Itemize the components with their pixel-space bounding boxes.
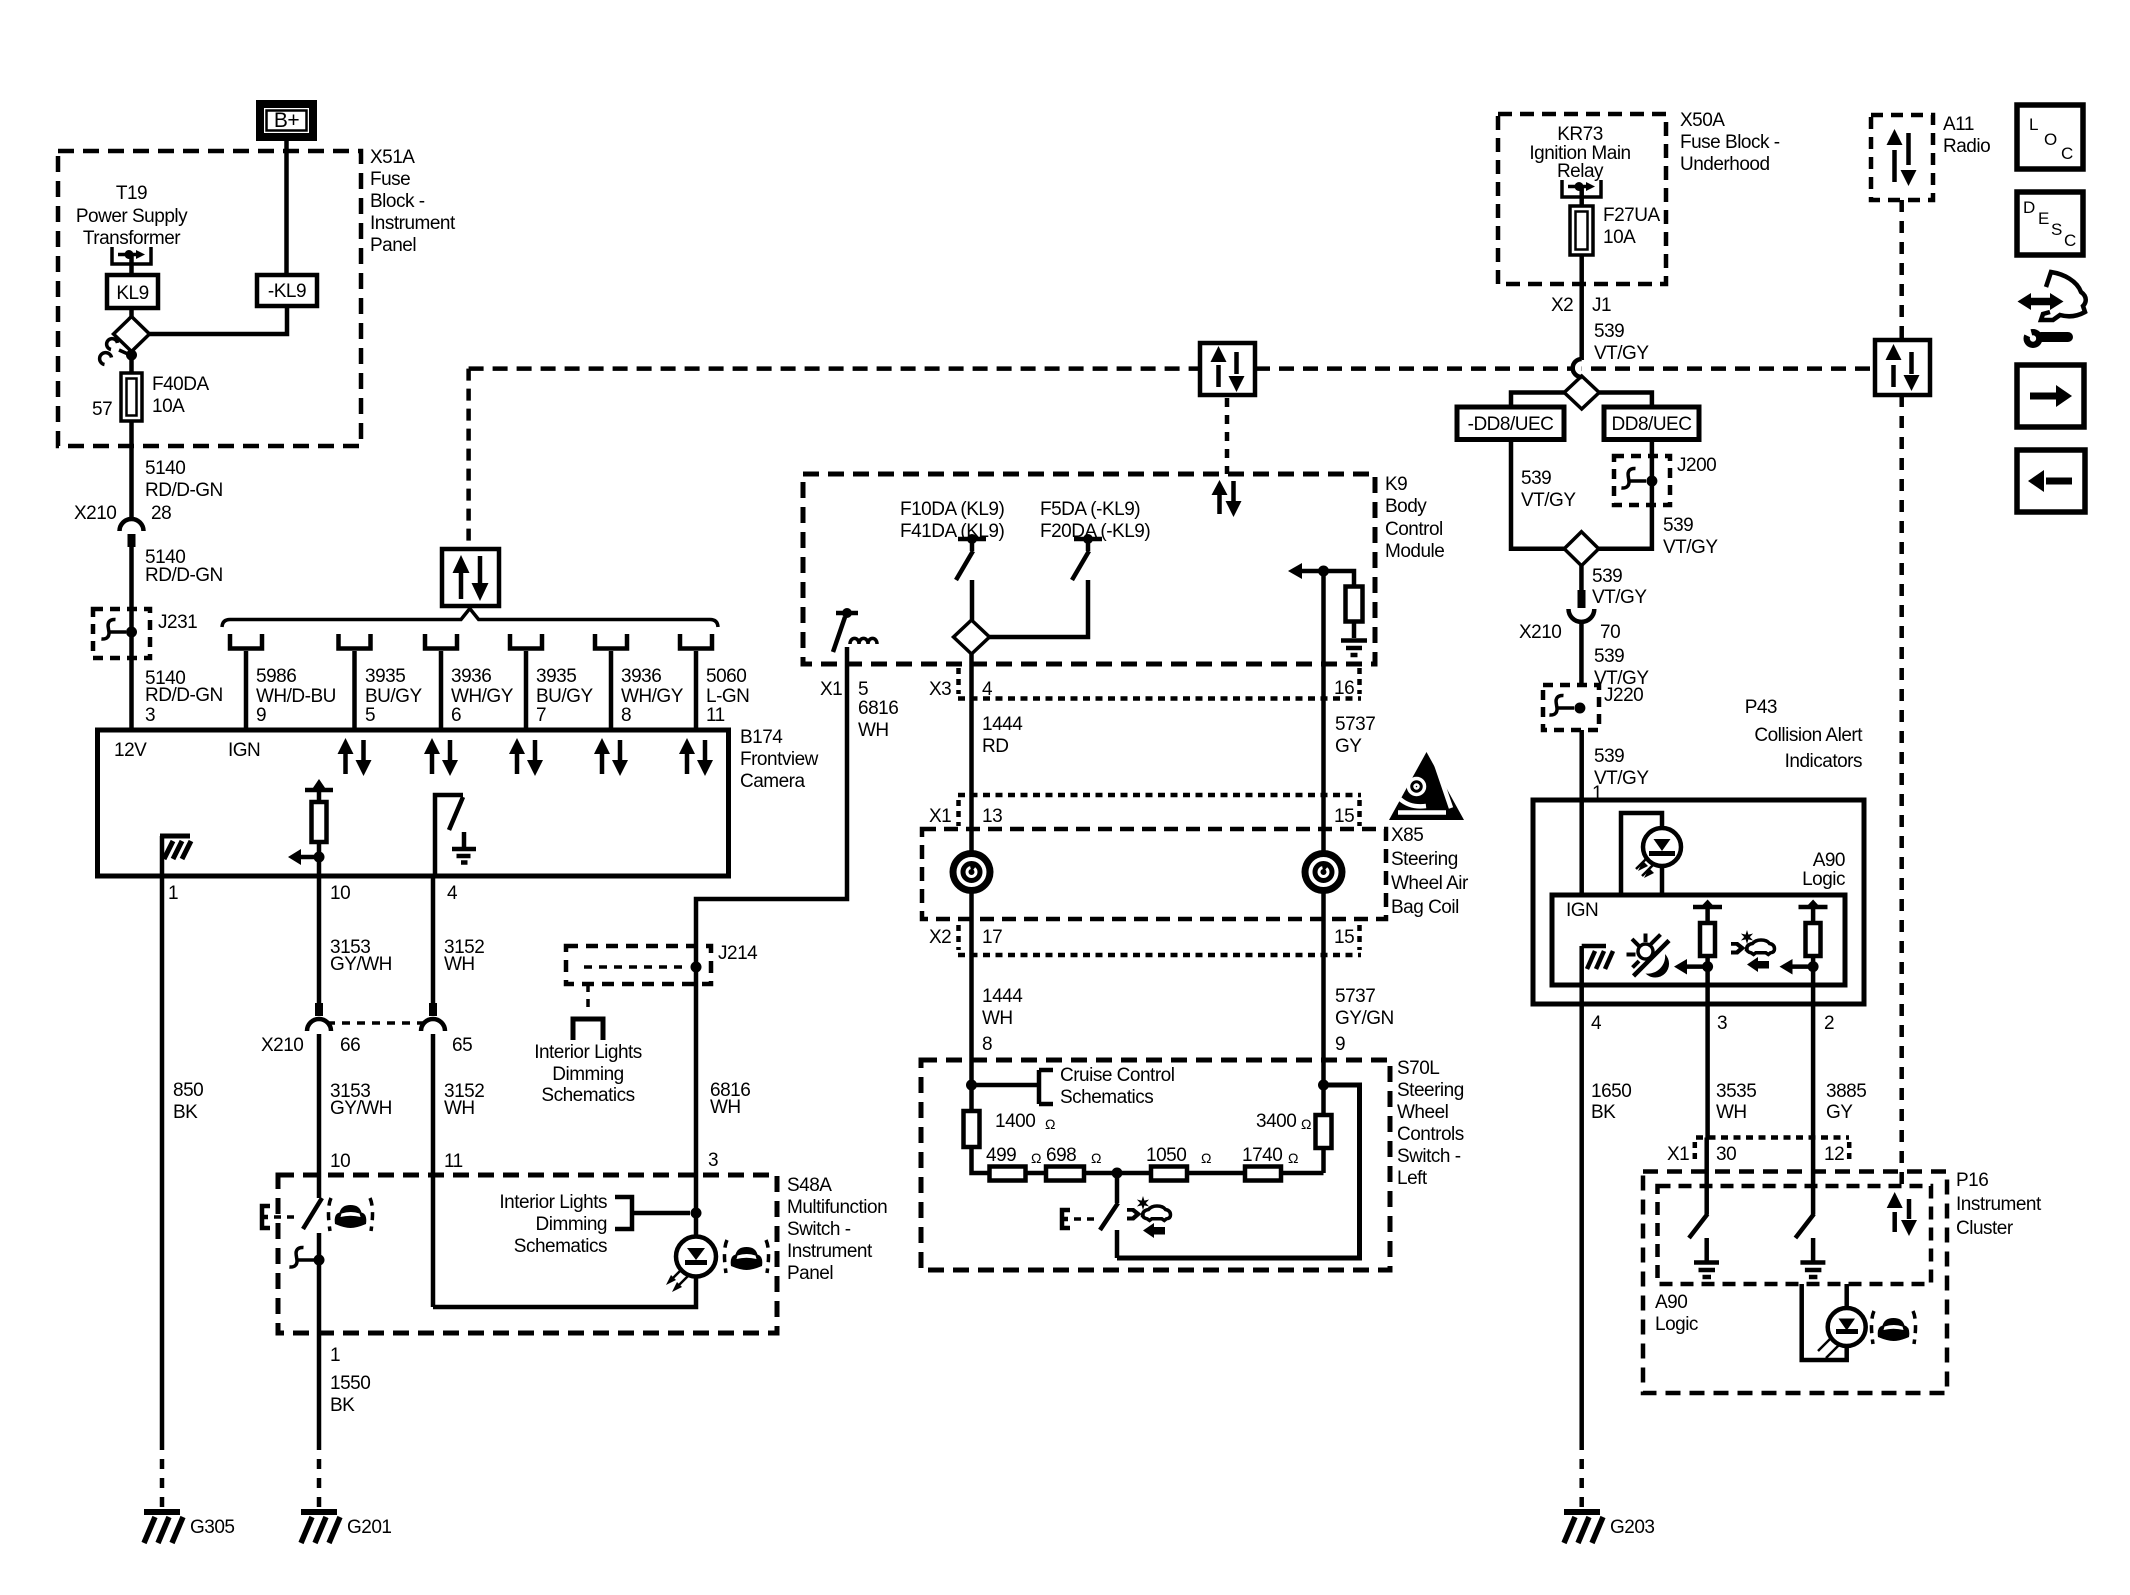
svg-text:5: 5: [858, 679, 868, 700]
svg-text:C: C: [2061, 144, 2073, 163]
svg-text:539: 539: [1594, 746, 1624, 767]
svg-text:-DD8/UEC: -DD8/UEC: [1468, 414, 1554, 435]
svg-text:9: 9: [256, 705, 266, 726]
svg-text:L: L: [2029, 115, 2038, 134]
svg-text:539: 539: [1594, 321, 1624, 342]
svg-text:Steering: Steering: [1391, 849, 1458, 870]
svg-text:GY: GY: [1826, 1102, 1853, 1123]
svg-text:A90: A90: [1813, 850, 1845, 871]
svg-text:F40DA: F40DA: [152, 374, 209, 395]
svg-text:Control: Control: [1385, 519, 1443, 540]
svg-text:WH: WH: [710, 1097, 741, 1118]
svg-text:O: O: [2044, 130, 2057, 149]
svg-text:70: 70: [1600, 622, 1620, 643]
svg-text:Controls: Controls: [1397, 1124, 1464, 1145]
svg-text:6816: 6816: [858, 698, 898, 719]
svg-text:Interior Lights: Interior Lights: [499, 1192, 607, 1213]
svg-text:L-GN: L-GN: [706, 686, 749, 707]
svg-text:RD/D-GN: RD/D-GN: [145, 480, 223, 501]
svg-text:Cruise Control: Cruise Control: [1060, 1065, 1174, 1086]
svg-text:12: 12: [1824, 1144, 1844, 1165]
svg-text:Wheel: Wheel: [1397, 1102, 1448, 1123]
svg-text:1: 1: [1592, 783, 1602, 804]
svg-text:1550: 1550: [330, 1373, 370, 1394]
svg-text:J200: J200: [1677, 455, 1716, 476]
svg-text:BK: BK: [1591, 1102, 1616, 1123]
svg-text:X210: X210: [261, 1035, 303, 1056]
svg-text:8: 8: [982, 1034, 992, 1055]
svg-text:Ω: Ω: [1045, 1116, 1055, 1132]
svg-text:WH/GY: WH/GY: [451, 686, 514, 707]
svg-text:17: 17: [982, 927, 1002, 948]
svg-text:IGN: IGN: [228, 740, 260, 761]
svg-text:Camera: Camera: [740, 771, 806, 792]
svg-text:Logic: Logic: [1655, 1314, 1698, 1335]
svg-text:Panel: Panel: [370, 235, 416, 256]
svg-text:1444: 1444: [982, 986, 1023, 1007]
svg-text:3936: 3936: [621, 666, 661, 687]
svg-text:1400: 1400: [995, 1111, 1035, 1132]
svg-text:1740: 1740: [1242, 1145, 1282, 1166]
svg-text:3935: 3935: [365, 666, 405, 687]
svg-text:J231: J231: [158, 612, 197, 633]
svg-text:Panel: Panel: [787, 1263, 833, 1284]
svg-text:X2: X2: [929, 927, 951, 948]
svg-text:5140: 5140: [145, 458, 185, 479]
svg-text:Underhood: Underhood: [1680, 154, 1770, 175]
svg-text:5737: 5737: [1335, 714, 1375, 735]
svg-text:BU/GY: BU/GY: [536, 686, 593, 707]
svg-text:D: D: [2023, 198, 2035, 217]
svg-text:VT/GY: VT/GY: [1594, 343, 1649, 364]
svg-text:F27UA: F27UA: [1603, 205, 1660, 226]
svg-text:7: 7: [536, 705, 546, 726]
svg-text:F5DA (-KL9): F5DA (-KL9): [1040, 499, 1140, 520]
svg-text:3400: 3400: [1256, 1111, 1296, 1132]
svg-text:VT/GY: VT/GY: [1592, 587, 1647, 608]
svg-text:4: 4: [1591, 1013, 1602, 1034]
svg-text:BK: BK: [330, 1395, 355, 1416]
svg-text:X1: X1: [820, 679, 842, 700]
svg-text:Ω: Ω: [1288, 1150, 1298, 1166]
svg-text:Ω: Ω: [1091, 1150, 1101, 1166]
svg-text:Left: Left: [1397, 1168, 1428, 1189]
svg-text:Body: Body: [1385, 496, 1427, 517]
svg-text:Steering: Steering: [1397, 1080, 1464, 1101]
svg-text:4: 4: [982, 679, 993, 700]
svg-text:2: 2: [1824, 1013, 1834, 1034]
svg-text:Dimming: Dimming: [552, 1064, 623, 1085]
svg-text:11: 11: [706, 705, 725, 726]
svg-text:15: 15: [1334, 927, 1354, 948]
svg-text:Multifunction: Multifunction: [787, 1197, 887, 1218]
svg-text:Module: Module: [1385, 541, 1444, 562]
svg-text:X1: X1: [929, 806, 951, 827]
svg-text:B174: B174: [740, 727, 783, 748]
svg-text:12V: 12V: [114, 740, 147, 761]
svg-text:J220: J220: [1604, 685, 1643, 706]
svg-text:Instrument: Instrument: [1956, 1194, 2042, 1215]
svg-text:S70L: S70L: [1397, 1058, 1439, 1079]
svg-text:Bag Coil: Bag Coil: [1391, 897, 1459, 918]
svg-text:S: S: [2051, 220, 2062, 239]
svg-text:Schematics: Schematics: [541, 1085, 634, 1106]
svg-text:Transformer: Transformer: [83, 228, 181, 249]
svg-text:Instrument: Instrument: [787, 1241, 873, 1262]
svg-text:28: 28: [151, 503, 171, 524]
svg-text:P43: P43: [1745, 697, 1777, 718]
svg-text:3: 3: [1717, 1013, 1727, 1034]
svg-text:15: 15: [1334, 806, 1354, 827]
svg-text:1050: 1050: [1146, 1145, 1186, 1166]
svg-text:Ω: Ω: [1031, 1150, 1041, 1166]
svg-text:KL9: KL9: [116, 283, 148, 304]
svg-text:Collision Alert: Collision Alert: [1754, 725, 1863, 746]
svg-text:3885: 3885: [1826, 1081, 1866, 1102]
svg-text:Schematics: Schematics: [514, 1236, 607, 1257]
svg-text:Logic: Logic: [1802, 869, 1845, 890]
svg-text:Wheel Air: Wheel Air: [1391, 873, 1469, 894]
svg-text:E: E: [2038, 209, 2049, 228]
svg-text:DD8/UEC: DD8/UEC: [1612, 414, 1692, 435]
svg-text:539: 539: [1663, 515, 1693, 536]
svg-text:57: 57: [92, 399, 112, 420]
svg-text:WH: WH: [444, 1098, 475, 1119]
svg-text:T19: T19: [116, 183, 147, 204]
svg-text:5737: 5737: [1335, 986, 1375, 1007]
svg-text:VT/GY: VT/GY: [1521, 490, 1576, 511]
svg-text:G201: G201: [347, 1517, 391, 1538]
svg-text:RD/D-GN: RD/D-GN: [145, 685, 223, 706]
svg-text:BU/GY: BU/GY: [365, 686, 422, 707]
svg-text:Block -: Block -: [370, 191, 425, 212]
svg-text:GY/GN: GY/GN: [1335, 1008, 1394, 1029]
svg-text:Schematics: Schematics: [1060, 1087, 1153, 1108]
svg-text:5: 5: [365, 705, 375, 726]
svg-text:KR73: KR73: [1557, 124, 1603, 145]
svg-text:Switch -: Switch -: [787, 1219, 851, 1240]
svg-text:499: 499: [986, 1145, 1016, 1166]
svg-text:539: 539: [1594, 646, 1624, 667]
svg-text:X50A: X50A: [1680, 110, 1725, 131]
svg-text:X210: X210: [74, 503, 116, 524]
svg-text:10: 10: [330, 1151, 350, 1172]
svg-text:6: 6: [451, 705, 461, 726]
svg-text:3: 3: [708, 1150, 718, 1171]
svg-text:3535: 3535: [1716, 1081, 1756, 1102]
svg-text:WH: WH: [1716, 1102, 1747, 1123]
svg-text:IGN: IGN: [1566, 900, 1598, 921]
svg-text:J214: J214: [718, 943, 758, 964]
svg-text:B+: B+: [274, 109, 300, 132]
svg-text:X210: X210: [1519, 622, 1561, 643]
svg-text:4: 4: [447, 883, 458, 904]
svg-text:Interior Lights: Interior Lights: [534, 1042, 642, 1063]
svg-text:30: 30: [1716, 1144, 1736, 1165]
svg-text:GY: GY: [1335, 736, 1362, 757]
svg-text:VT/GY: VT/GY: [1663, 537, 1718, 558]
svg-text:F41DA (KL9): F41DA (KL9): [900, 521, 1004, 542]
svg-text:Indicators: Indicators: [1785, 751, 1862, 772]
svg-text:GY/WH: GY/WH: [330, 1098, 392, 1119]
svg-text:G203: G203: [1610, 1517, 1654, 1538]
svg-text:66: 66: [340, 1035, 360, 1056]
svg-text:F10DA (KL9): F10DA (KL9): [900, 499, 1004, 520]
svg-text:K9: K9: [1385, 474, 1407, 495]
svg-text:RD/D-GN: RD/D-GN: [145, 565, 223, 586]
svg-text:1: 1: [168, 883, 178, 904]
svg-text:A11: A11: [1943, 114, 1974, 135]
svg-text:10: 10: [330, 883, 350, 904]
svg-text:1444: 1444: [982, 714, 1023, 735]
svg-text:Power Supply: Power Supply: [76, 206, 188, 227]
svg-text:11: 11: [444, 1151, 463, 1172]
svg-text:X2: X2: [1551, 295, 1573, 316]
svg-text:3935: 3935: [536, 666, 576, 687]
svg-text:GY/WH: GY/WH: [330, 954, 392, 975]
svg-text:8: 8: [621, 705, 631, 726]
svg-text:F20DA (-KL9): F20DA (-KL9): [1040, 521, 1150, 542]
svg-text:1: 1: [330, 1345, 340, 1366]
svg-text:10A: 10A: [152, 396, 185, 417]
svg-text:BK: BK: [173, 1102, 198, 1123]
svg-text:X1: X1: [1667, 1144, 1689, 1165]
svg-text:A90: A90: [1655, 1292, 1687, 1313]
svg-text:Ω: Ω: [1201, 1150, 1211, 1166]
svg-text:J1: J1: [1592, 295, 1611, 316]
svg-text:Cluster: Cluster: [1956, 1218, 2014, 1239]
svg-text:Instrument: Instrument: [370, 213, 456, 234]
svg-text:S48A: S48A: [787, 1175, 832, 1196]
svg-text:65: 65: [452, 1035, 472, 1056]
svg-text:X51A: X51A: [370, 147, 415, 168]
svg-text:X85: X85: [1391, 825, 1423, 846]
svg-text:WH: WH: [982, 1008, 1013, 1029]
svg-text:5060: 5060: [706, 666, 746, 687]
svg-text:WH: WH: [444, 954, 475, 975]
svg-text:539: 539: [1521, 468, 1551, 489]
svg-text:1650: 1650: [1591, 1081, 1631, 1102]
svg-text:P16: P16: [1956, 1170, 1988, 1191]
svg-text:698: 698: [1046, 1145, 1076, 1166]
svg-text:Dimming: Dimming: [536, 1214, 607, 1235]
svg-text:-KL9: -KL9: [268, 281, 306, 302]
svg-text:WH: WH: [858, 720, 889, 741]
svg-text:3936: 3936: [451, 666, 491, 687]
svg-text:Frontview: Frontview: [740, 749, 819, 770]
svg-text:16: 16: [1334, 678, 1354, 699]
svg-text:Radio: Radio: [1943, 136, 1990, 157]
svg-text:G305: G305: [190, 1517, 234, 1538]
svg-text:Fuse: Fuse: [370, 169, 410, 190]
svg-text:539: 539: [1592, 566, 1622, 587]
svg-text:WH/D-BU: WH/D-BU: [256, 686, 336, 707]
svg-text:Ω: Ω: [1301, 1116, 1311, 1132]
svg-text:WH/GY: WH/GY: [621, 686, 684, 707]
svg-text:Fuse Block -: Fuse Block -: [1680, 132, 1780, 153]
svg-text:C: C: [2064, 231, 2076, 250]
svg-text:850: 850: [173, 1080, 203, 1101]
svg-text:3: 3: [145, 705, 155, 726]
svg-text:5986: 5986: [256, 666, 296, 687]
svg-text:X3: X3: [929, 679, 951, 700]
svg-text:VT/GY: VT/GY: [1594, 768, 1649, 789]
svg-text:13: 13: [982, 806, 1002, 827]
svg-text:Switch -: Switch -: [1397, 1146, 1461, 1167]
svg-text:9: 9: [1335, 1034, 1345, 1055]
svg-text:RD: RD: [982, 736, 1008, 757]
svg-text:Relay: Relay: [1557, 161, 1604, 182]
svg-text:10A: 10A: [1603, 227, 1636, 248]
